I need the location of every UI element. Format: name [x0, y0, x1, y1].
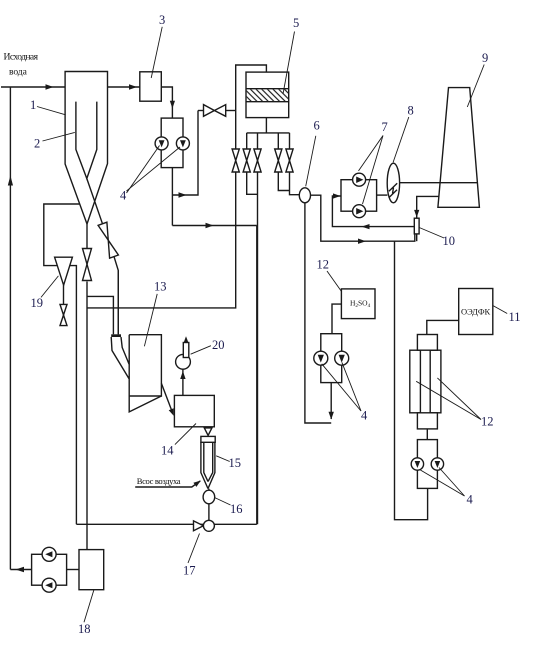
pointer 17 — [188, 534, 200, 564]
wire: riser to filter top — [236, 65, 267, 149]
sump 18 — [79, 550, 104, 590]
flow meter 6 — [299, 188, 310, 203]
svg-text:19: 19 — [31, 296, 44, 310]
pointer 18 — [84, 590, 94, 622]
wire: bottom collecting line — [76, 523, 256, 525]
valve (slanted, clarifier drain) — [98, 222, 108, 240]
wire: meter 6 bottom drop — [305, 203, 331, 423]
wire: branch to backwash riser — [172, 111, 198, 196]
valve (cyclone drain bowtie) — [60, 304, 67, 315]
wire: pump 4 waste line — [172, 225, 256, 227]
wire: inner cone drain to slant valve — [87, 179, 119, 335]
funnel between 14 and 15 — [204, 428, 212, 436]
pump block 18 — [32, 554, 67, 585]
cyclone 19 — [55, 257, 73, 285]
valve (filter drain 3) — [254, 149, 261, 172]
pointer 2 — [43, 132, 75, 141]
wire: mixer 3 to pumps 4 — [161, 87, 172, 118]
rotameter 16 — [208, 489, 210, 491]
svg-text:Исходная: Исходная — [4, 52, 39, 63]
pump block 4 (acid dosing) — [321, 334, 342, 383]
wire: tank 11 to columns — [427, 320, 459, 334]
pointer 7 — [359, 136, 384, 171]
svg-text:17: 17 — [183, 564, 196, 578]
pointer 1 — [37, 107, 66, 115]
svg-text:5: 5 — [293, 16, 299, 30]
wire: cyclone overflow down to bottom line — [70, 266, 77, 525]
pump 17 — [194, 521, 204, 531]
svg-text:вода: вода — [9, 67, 28, 78]
pointer 14 — [175, 424, 196, 445]
wire: air duct to blower 20 — [182, 361, 184, 395]
wire: outlet valves to flowmeter 6 — [278, 172, 299, 195]
pointer 9 — [467, 65, 484, 108]
pointer 13 — [144, 294, 157, 346]
pointer 20 — [191, 346, 211, 355]
pointer 4b — [322, 364, 361, 411]
pointer 12a — [327, 271, 342, 292]
wire: clarifier left drain to cyclone — [44, 204, 80, 266]
pointer 10 — [419, 228, 444, 239]
mixer 3 (box) — [140, 72, 162, 101]
valve (filter outlet 4) — [275, 149, 282, 172]
svg-text:2: 2 — [34, 137, 40, 151]
svg-text:H2SO4: H2SO4 — [350, 299, 371, 310]
svg-text:12: 12 — [317, 258, 330, 272]
svg-text:3: 3 — [159, 13, 165, 27]
svg-text:4: 4 — [361, 409, 368, 423]
wire: meter 6 to suction loop — [311, 195, 415, 241]
valve (filter drain 1) — [232, 149, 239, 172]
clarifier 2 (inner cone) — [76, 102, 97, 179]
valve (filter drain 2) — [243, 149, 250, 172]
pump block 4 (OEDFK dosing) — [417, 440, 437, 489]
svg-text:Всос воздуха: Всос воздуха — [137, 476, 181, 486]
wire: sludge line down to sump 18 — [86, 282, 88, 550]
svg-text:15: 15 — [229, 456, 242, 470]
clarifier 1 (vessel) — [65, 72, 107, 88]
svg-text:6: 6 — [314, 119, 320, 133]
valve (horizontal bowtie at filter inlet) — [198, 110, 204, 112]
wire: riser from drain collector — [256, 226, 258, 525]
wire: sump to pumps 18 — [67, 569, 79, 571]
wire: pump 4 discharge down — [171, 168, 173, 226]
valve (filter outlet 5) — [286, 149, 293, 172]
pump block 7 — [341, 180, 377, 212]
pointer 8 — [393, 117, 409, 162]
blower 20 — [176, 354, 191, 369]
svg-text:12: 12 — [481, 415, 494, 429]
filter 5 — [246, 72, 289, 118]
svg-text:13: 13 — [154, 280, 167, 294]
pointer 4c — [420, 470, 464, 496]
svg-text:1: 1 — [30, 98, 36, 112]
aerator column 15 — [201, 436, 215, 442]
pointer 6 — [306, 136, 316, 187]
wire: drain valve 1 down + collector to sump — [87, 172, 236, 308]
wire: pumps 18 discharge to return riser — [10, 569, 31, 571]
svg-text:8: 8 — [408, 104, 414, 118]
svg-text:18: 18 — [78, 622, 91, 636]
wire: tower outlet to injector 10 — [417, 196, 439, 218]
wire: heater 8 to tower 9 — [400, 182, 478, 184]
wire: left return riser — [9, 87, 11, 570]
pointer 5 — [283, 32, 295, 95]
svg-text:16: 16 — [230, 502, 243, 516]
wire: branch down to dosing skid 12 — [395, 241, 428, 520]
pointer 11 — [493, 306, 507, 314]
svg-text:4: 4 — [467, 493, 474, 507]
pointer 19 — [41, 276, 58, 298]
solution tank 14 — [174, 395, 214, 426]
svg-text:9: 9 — [482, 51, 488, 65]
feeder (flocculant hopper) — [117, 271, 119, 335]
wire: cyclone underflow — [63, 285, 65, 304]
mixer tank 13 — [129, 335, 161, 396]
wire: collector top edge — [86, 307, 88, 309]
pointer 3 — [151, 27, 162, 78]
node: source water text — [4, 52, 39, 78]
wire: tank 13 to tank 14 (arrow) — [161, 383, 172, 411]
pump block 4 — [161, 118, 183, 168]
label pointers — [37, 27, 507, 622]
wire: drain valve 2 elbow — [247, 172, 258, 194]
wire: injector outlet to pumps 7 — [332, 196, 414, 227]
wire: acid injection — [330, 383, 332, 419]
wire: acid tank to pumps — [332, 304, 341, 334]
svg-text:4: 4 — [120, 189, 127, 203]
wire: clarifier sludge drain — [86, 224, 88, 250]
wire: drain valve 3 long down — [257, 172, 259, 524]
cooling tower 9 — [438, 88, 480, 208]
wire: clarifier outlet to mixer 3 — [108, 86, 140, 88]
node: air suction label — [137, 476, 181, 486]
svg-text:11: 11 — [509, 310, 521, 324]
pointer 12b — [416, 381, 481, 419]
dosing columns 12 — [417, 335, 437, 351]
svg-text:ОЭДФК: ОЭДФК — [461, 307, 491, 317]
pointer 16 — [215, 498, 231, 506]
wire: branch to feeder — [87, 296, 113, 334]
acid tank 12 (H2SO4) — [341, 289, 375, 319]
svg-text:20: 20 — [212, 338, 225, 352]
svg-text:7: 7 — [382, 120, 388, 134]
svg-text:14: 14 — [161, 444, 174, 458]
pointer 4a — [127, 146, 160, 194]
chemical tank 11 (OEDFK) — [459, 289, 493, 335]
svg-text:10: 10 — [443, 234, 456, 248]
wire: pumps 7 to heater 8 — [377, 194, 388, 196]
wire: filter bottom stub and manifold — [247, 118, 290, 133]
wire: feed line into clarifier — [1, 86, 65, 88]
valve (sludge bowtie) — [83, 249, 92, 265]
pointer 15 — [216, 456, 230, 462]
injector 10 — [414, 218, 419, 234]
heat exchanger 8 — [387, 163, 399, 203]
